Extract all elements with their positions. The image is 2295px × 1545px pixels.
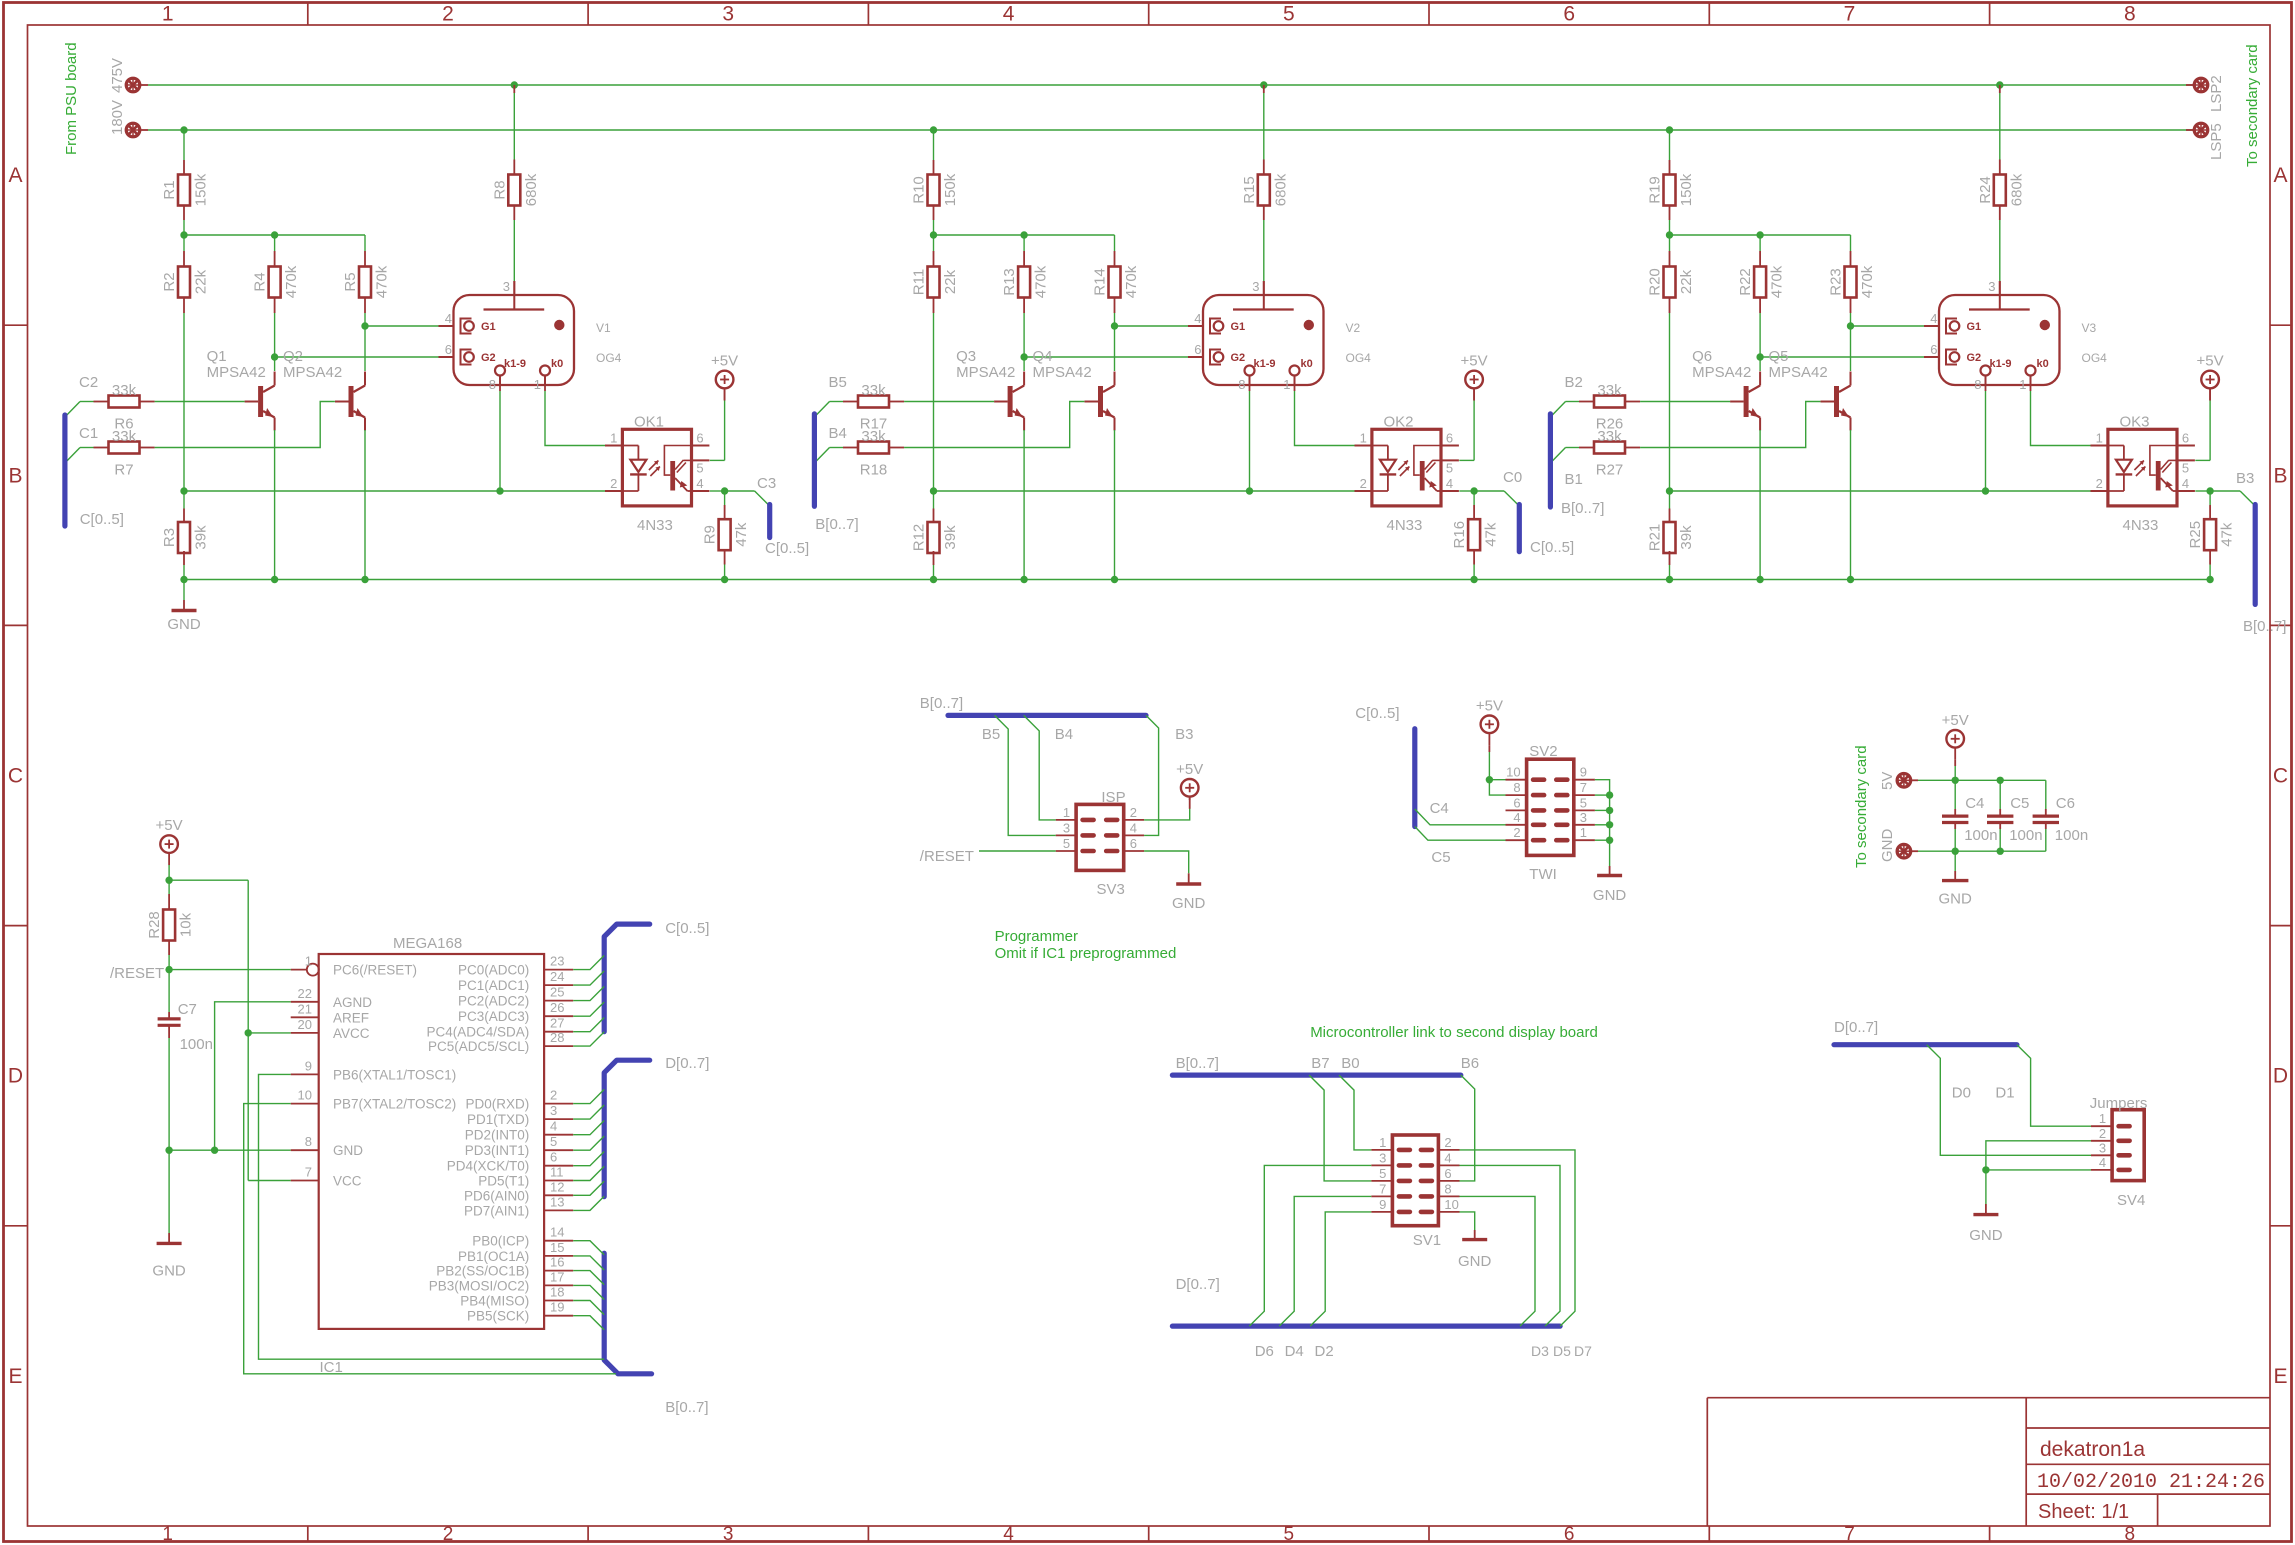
svg-text:k1-9: k1-9 — [1254, 358, 1276, 370]
svg-text:k1-9: k1-9 — [504, 358, 526, 370]
svg-text:33k: 33k — [112, 382, 137, 399]
svg-text:39k: 39k — [1678, 525, 1695, 550]
svg-text:LSP5: LSP5 — [2208, 123, 2225, 160]
svg-text:680k: 680k — [2008, 173, 2025, 206]
svg-text:B2: B2 — [1565, 374, 1583, 391]
svg-text:R14: R14 — [1092, 268, 1109, 296]
svg-text:4: 4 — [1130, 820, 1137, 835]
svg-text:V1: V1 — [596, 321, 611, 335]
svg-text:GND: GND — [1879, 829, 1896, 863]
svg-text:5: 5 — [1063, 836, 1070, 851]
svg-text:100n: 100n — [1964, 827, 1997, 844]
svg-text:PC3(ADC3): PC3(ADC3) — [458, 1009, 529, 1024]
svg-text:MEGA168: MEGA168 — [393, 935, 462, 952]
svg-text:10: 10 — [1506, 765, 1520, 780]
svg-text:7: 7 — [1844, 1524, 1855, 1545]
svg-text:1: 1 — [162, 1524, 173, 1545]
svg-text:1: 1 — [1283, 377, 1290, 392]
svg-text:B[0..7]: B[0..7] — [815, 516, 858, 533]
svg-text:8: 8 — [2125, 1524, 2136, 1545]
svg-text:470k: 470k — [1859, 265, 1876, 298]
svg-text:D4: D4 — [1285, 1343, 1304, 1360]
svg-text:V2: V2 — [1346, 321, 1361, 335]
svg-text:R9: R9 — [702, 525, 719, 544]
svg-text:G2: G2 — [481, 352, 496, 364]
svg-text:PD6(AIN0): PD6(AIN0) — [464, 1188, 529, 1203]
svg-text:C[0..5]: C[0..5] — [1355, 705, 1399, 722]
svg-text:B7: B7 — [1311, 1055, 1329, 1072]
svg-text:22: 22 — [298, 986, 312, 1001]
svg-text:470k: 470k — [1033, 265, 1050, 298]
svg-text:470k: 470k — [283, 265, 300, 298]
svg-text:R4: R4 — [252, 272, 269, 291]
svg-text:24: 24 — [550, 969, 564, 984]
svg-text:AREF: AREF — [333, 1010, 369, 1025]
svg-text:B6: B6 — [1461, 1055, 1479, 1072]
svg-text:6: 6 — [1930, 342, 1937, 357]
svg-text:R1: R1 — [161, 180, 178, 199]
svg-text:11: 11 — [550, 1165, 564, 1180]
svg-text:6: 6 — [1444, 1166, 1451, 1181]
svg-text:1: 1 — [305, 954, 312, 969]
svg-text:SV2: SV2 — [1529, 743, 1557, 760]
svg-text:MPSA42: MPSA42 — [283, 364, 342, 381]
svg-text:R12: R12 — [911, 524, 928, 552]
svg-text:GND: GND — [1939, 891, 1973, 908]
svg-text:3: 3 — [1252, 279, 1259, 294]
svg-text:R3: R3 — [161, 528, 178, 547]
svg-text:8: 8 — [2124, 3, 2136, 26]
svg-text:4: 4 — [1194, 311, 1201, 326]
svg-text:2: 2 — [443, 1524, 454, 1545]
svg-text:470k: 470k — [374, 265, 391, 298]
svg-text:13: 13 — [550, 1194, 564, 1209]
svg-text:PD7(AIN1): PD7(AIN1) — [464, 1203, 529, 1218]
svg-text:OG4: OG4 — [1346, 351, 1372, 365]
svg-text:PD0(RXD): PD0(RXD) — [466, 1097, 530, 1112]
svg-text:B[0..7]: B[0..7] — [1176, 1055, 1219, 1072]
svg-text:PB7(XTAL2/TOSC2): PB7(XTAL2/TOSC2) — [333, 1097, 456, 1112]
svg-text:B3: B3 — [2236, 470, 2254, 487]
svg-text:Q1: Q1 — [207, 348, 227, 365]
svg-text:47k: 47k — [1483, 522, 1500, 547]
svg-text:680k: 680k — [1272, 173, 1289, 206]
svg-text:AGND: AGND — [333, 995, 372, 1010]
svg-text:+5V: +5V — [711, 353, 738, 370]
svg-text:B4: B4 — [829, 425, 847, 442]
svg-text:D[0..7]: D[0..7] — [665, 1055, 709, 1072]
svg-text:4N33: 4N33 — [637, 517, 673, 534]
svg-text:6: 6 — [2182, 431, 2189, 446]
svg-text:E: E — [8, 1365, 22, 1388]
svg-text:GND: GND — [1969, 1227, 2003, 1244]
svg-text:Q5: Q5 — [1769, 348, 1789, 365]
svg-text:4: 4 — [1513, 810, 1520, 825]
svg-text:4: 4 — [696, 476, 703, 491]
svg-text:3: 3 — [723, 1524, 734, 1545]
svg-text:3: 3 — [722, 3, 734, 26]
svg-text:4: 4 — [1003, 1524, 1014, 1545]
svg-text:PD1(TXD): PD1(TXD) — [467, 1112, 529, 1127]
svg-text:D7: D7 — [1574, 1343, 1592, 1359]
svg-text:2: 2 — [1513, 825, 1520, 840]
svg-text:A: A — [2273, 164, 2287, 187]
svg-text:PB2(SS/OC1B): PB2(SS/OC1B) — [436, 1264, 529, 1279]
svg-text:GND: GND — [333, 1143, 363, 1158]
svg-text:TWI: TWI — [1529, 866, 1557, 883]
svg-text:6: 6 — [1563, 3, 1575, 26]
svg-text:k0: k0 — [1301, 358, 1313, 370]
svg-text:4: 4 — [1003, 3, 1015, 26]
svg-text:LSP2: LSP2 — [2208, 75, 2225, 112]
svg-text:From PSU board: From PSU board — [63, 42, 80, 155]
svg-text:33k: 33k — [112, 428, 137, 445]
svg-text:3: 3 — [1988, 279, 1995, 294]
svg-text:D6: D6 — [1255, 1343, 1274, 1360]
svg-text:150k: 150k — [193, 173, 210, 206]
svg-text:19: 19 — [550, 1300, 564, 1315]
svg-text:C[0..5]: C[0..5] — [1530, 539, 1574, 556]
svg-text:+5V: +5V — [1942, 712, 1969, 729]
svg-text:7: 7 — [1379, 1181, 1386, 1196]
svg-text:5: 5 — [1446, 460, 1453, 475]
svg-text:47k: 47k — [2219, 522, 2236, 547]
svg-text:D[0..7]: D[0..7] — [1176, 1276, 1220, 1293]
svg-text:C4: C4 — [1430, 800, 1449, 817]
svg-text:R24: R24 — [1977, 176, 1994, 204]
svg-text:C: C — [8, 765, 23, 788]
svg-text:6: 6 — [1513, 795, 1520, 810]
svg-text:2: 2 — [2099, 1126, 2106, 1141]
svg-text:33k: 33k — [1597, 382, 1622, 399]
svg-text:C2: C2 — [79, 374, 98, 391]
svg-text:33k: 33k — [1597, 428, 1622, 445]
svg-text:Q3: Q3 — [956, 348, 976, 365]
svg-text:5: 5 — [550, 1134, 557, 1149]
svg-text:G1: G1 — [1231, 321, 1246, 333]
svg-text:5: 5 — [1379, 1166, 1386, 1181]
svg-text:PC1(ADC1): PC1(ADC1) — [458, 978, 529, 993]
svg-text:B[0..7]: B[0..7] — [2243, 618, 2286, 635]
svg-text:1: 1 — [2099, 1111, 2106, 1126]
svg-text:R7: R7 — [114, 462, 133, 479]
svg-text:Microcontroller link to second: Microcontroller link to second display b… — [1310, 1024, 1598, 1041]
svg-text:dekatron1a: dekatron1a — [2040, 1438, 2145, 1461]
svg-text:+5V: +5V — [156, 817, 183, 834]
svg-text:10k: 10k — [178, 912, 195, 937]
svg-text:8: 8 — [1513, 780, 1520, 795]
svg-text:Q6: Q6 — [1692, 348, 1712, 365]
svg-text:B5: B5 — [982, 726, 1000, 743]
svg-text:AVCC: AVCC — [333, 1026, 370, 1041]
svg-text:1: 1 — [610, 431, 617, 446]
svg-text:1: 1 — [2019, 377, 2026, 392]
svg-text:PB0(ICP): PB0(ICP) — [472, 1234, 529, 1249]
svg-text:MPSA42: MPSA42 — [1769, 364, 1828, 381]
svg-text:B: B — [8, 464, 22, 487]
svg-text:MPSA42: MPSA42 — [207, 364, 266, 381]
svg-text:100n: 100n — [2009, 827, 2042, 844]
svg-text:7: 7 — [305, 1165, 312, 1180]
svg-text:R10: R10 — [911, 176, 928, 204]
svg-text:2: 2 — [1444, 1135, 1451, 1150]
svg-text:9: 9 — [1580, 765, 1587, 780]
svg-text:B1: B1 — [1565, 471, 1583, 488]
svg-text:5: 5 — [1283, 3, 1295, 26]
svg-text:R11: R11 — [911, 269, 928, 295]
svg-text:2: 2 — [1360, 476, 1367, 491]
svg-text:PC5(ADC5/SCL): PC5(ADC5/SCL) — [428, 1039, 529, 1054]
svg-text:GND: GND — [1172, 895, 1206, 912]
svg-text:10/02/2010 21:24:26: 10/02/2010 21:24:26 — [2037, 1471, 2265, 1494]
svg-text:C5: C5 — [2010, 795, 2029, 812]
svg-text:G2: G2 — [1231, 352, 1246, 364]
svg-text:R28: R28 — [146, 911, 163, 939]
svg-text:D2: D2 — [1315, 1343, 1334, 1360]
svg-text:SV4: SV4 — [2117, 1192, 2145, 1209]
svg-text:OK2: OK2 — [1384, 414, 1414, 431]
svg-text:B5: B5 — [829, 374, 847, 391]
svg-text:G1: G1 — [481, 321, 496, 333]
svg-text:8: 8 — [489, 377, 496, 392]
svg-text:8: 8 — [305, 1134, 312, 1149]
svg-text:D[0..7]: D[0..7] — [1834, 1019, 1878, 1036]
svg-text:12: 12 — [550, 1179, 564, 1194]
svg-text:28: 28 — [550, 1030, 564, 1045]
svg-text:Sheet: 1/1: Sheet: 1/1 — [2038, 1501, 2129, 1523]
svg-text:22k: 22k — [942, 269, 959, 294]
svg-text:PB1(OC1A): PB1(OC1A) — [458, 1249, 529, 1264]
svg-text:C5: C5 — [1431, 849, 1450, 866]
svg-text:4: 4 — [1930, 311, 1937, 326]
svg-text:100n: 100n — [180, 1036, 213, 1053]
svg-text:39k: 39k — [193, 525, 210, 550]
svg-text:/RESET: /RESET — [110, 965, 164, 982]
svg-text:B: B — [2273, 464, 2287, 487]
svg-text:VCC: VCC — [333, 1174, 362, 1189]
svg-text:39k: 39k — [942, 525, 959, 550]
svg-text:3: 3 — [503, 279, 510, 294]
svg-text:R23: R23 — [1828, 268, 1845, 296]
svg-text:100n: 100n — [2055, 827, 2088, 844]
svg-text:4: 4 — [1446, 476, 1453, 491]
svg-text:1: 1 — [1063, 805, 1070, 820]
svg-text:B4: B4 — [1055, 726, 1073, 743]
svg-text:150k: 150k — [1678, 173, 1695, 206]
svg-text:33k: 33k — [861, 382, 886, 399]
svg-text:180V: 180V — [109, 100, 126, 135]
svg-text:3: 3 — [1379, 1150, 1386, 1165]
svg-text:Q4: Q4 — [1033, 348, 1053, 365]
svg-text:+5V: +5V — [1176, 761, 1203, 778]
svg-text:PD5(T1): PD5(T1) — [478, 1174, 529, 1189]
svg-text:R22: R22 — [1737, 268, 1754, 296]
svg-text:C7: C7 — [178, 1001, 197, 1018]
svg-text:6: 6 — [1194, 342, 1201, 357]
svg-text:3: 3 — [1580, 810, 1587, 825]
svg-text:C: C — [2273, 765, 2288, 788]
svg-text:9: 9 — [305, 1058, 312, 1073]
svg-text:470k: 470k — [1123, 265, 1140, 298]
svg-text:B[0..7]: B[0..7] — [665, 1399, 708, 1416]
svg-text:26: 26 — [550, 1000, 564, 1015]
svg-text:B[0..7]: B[0..7] — [920, 695, 963, 712]
svg-text:3: 3 — [1063, 820, 1070, 835]
svg-text:SV3: SV3 — [1097, 881, 1125, 898]
svg-text:23: 23 — [550, 954, 564, 969]
svg-text:PC2(ADC2): PC2(ADC2) — [458, 994, 529, 1009]
svg-text:C6: C6 — [2056, 795, 2075, 812]
svg-text:20: 20 — [298, 1017, 312, 1032]
svg-text:27: 27 — [550, 1016, 564, 1031]
svg-text:4: 4 — [1444, 1150, 1451, 1165]
svg-text:Jumpers: Jumpers — [2090, 1095, 2148, 1112]
svg-text:+5V: +5V — [2197, 353, 2224, 370]
svg-text:/RESET: /RESET — [920, 848, 974, 865]
svg-text:To secondary card: To secondary card — [2244, 44, 2261, 167]
svg-text:47k: 47k — [733, 522, 750, 547]
svg-text:C[0..5]: C[0..5] — [665, 920, 709, 937]
svg-text:Programmer: Programmer — [995, 928, 1078, 945]
svg-text:R20: R20 — [1647, 268, 1664, 296]
svg-text:k1-9: k1-9 — [1990, 358, 2012, 370]
svg-text:2: 2 — [1130, 805, 1137, 820]
svg-text:C1: C1 — [79, 425, 98, 442]
svg-text:9: 9 — [1379, 1197, 1386, 1212]
svg-text:R25: R25 — [2187, 521, 2204, 549]
svg-text:1: 1 — [1379, 1135, 1386, 1150]
svg-text:PB6(XTAL1/TOSC1): PB6(XTAL1/TOSC1) — [333, 1067, 456, 1082]
svg-text:R8: R8 — [491, 180, 508, 199]
svg-text:4: 4 — [445, 311, 452, 326]
svg-text:R27: R27 — [1596, 462, 1624, 479]
svg-text:2: 2 — [442, 3, 454, 26]
svg-text:B3: B3 — [1175, 726, 1193, 743]
svg-text:10: 10 — [1444, 1197, 1458, 1212]
svg-text:PC6(/RESET): PC6(/RESET) — [333, 963, 417, 978]
svg-text:C[0..5]: C[0..5] — [765, 540, 809, 557]
svg-text:C0: C0 — [1503, 469, 1522, 486]
svg-text:33k: 33k — [861, 428, 886, 445]
svg-text:R18: R18 — [860, 462, 888, 479]
svg-text:6: 6 — [1130, 836, 1137, 851]
svg-text:1: 1 — [2096, 431, 2103, 446]
svg-text:B[0..7]: B[0..7] — [1561, 500, 1604, 517]
svg-text:6: 6 — [1564, 1524, 1575, 1545]
svg-text:G2: G2 — [1967, 352, 1982, 364]
svg-text:PB4(MISO): PB4(MISO) — [460, 1294, 529, 1309]
svg-text:5: 5 — [2182, 460, 2189, 475]
svg-text:R15: R15 — [1241, 176, 1258, 204]
svg-text:6: 6 — [445, 342, 452, 357]
svg-text:C[0..5]: C[0..5] — [80, 511, 124, 528]
svg-text:D: D — [8, 1065, 23, 1088]
svg-text:1: 1 — [162, 3, 174, 26]
svg-text:150k: 150k — [942, 173, 959, 206]
svg-text:PB5(SCK): PB5(SCK) — [467, 1309, 529, 1324]
svg-text:8: 8 — [1238, 377, 1245, 392]
svg-text:6: 6 — [550, 1150, 557, 1165]
svg-text:3: 3 — [2099, 1140, 2106, 1155]
svg-text:SV1: SV1 — [1413, 1232, 1441, 1249]
svg-text:PD3(INT1): PD3(INT1) — [465, 1143, 530, 1158]
svg-text:6: 6 — [696, 431, 703, 446]
svg-text:R2: R2 — [161, 272, 178, 291]
svg-text:E: E — [2273, 1365, 2287, 1388]
svg-text:R21: R21 — [1647, 524, 1664, 552]
svg-text:8: 8 — [1444, 1181, 1451, 1196]
svg-text:GND: GND — [167, 616, 201, 633]
svg-text:+5V: +5V — [1476, 697, 1503, 714]
svg-text:4: 4 — [2182, 476, 2189, 491]
svg-text:7: 7 — [1580, 780, 1587, 795]
svg-text:PD2(INT0): PD2(INT0) — [465, 1128, 530, 1143]
svg-text:2: 2 — [550, 1088, 557, 1103]
svg-text:R16: R16 — [1451, 521, 1468, 549]
svg-text:R13: R13 — [1001, 268, 1018, 296]
svg-text:OG4: OG4 — [2082, 351, 2108, 365]
svg-text:GND: GND — [1593, 887, 1627, 904]
svg-text:GND: GND — [1458, 1253, 1492, 1270]
svg-text:A: A — [8, 164, 22, 187]
svg-text:PB3(MOSI/OC2): PB3(MOSI/OC2) — [429, 1278, 530, 1293]
svg-text:OG4: OG4 — [596, 351, 622, 365]
svg-text:R5: R5 — [342, 272, 359, 291]
svg-text:k0: k0 — [551, 358, 563, 370]
svg-text:D1: D1 — [1995, 1085, 2014, 1102]
svg-text:V3: V3 — [2082, 321, 2097, 335]
svg-text:16: 16 — [550, 1255, 564, 1270]
svg-text:14: 14 — [550, 1225, 564, 1240]
svg-text:D3: D3 — [1531, 1343, 1549, 1359]
svg-text:D0: D0 — [1952, 1085, 1971, 1102]
svg-text:Q2: Q2 — [283, 348, 303, 365]
svg-text:25: 25 — [550, 985, 564, 1000]
svg-text:MPSA42: MPSA42 — [956, 364, 1015, 381]
svg-text:G1: G1 — [1967, 321, 1982, 333]
svg-text:2: 2 — [610, 476, 617, 491]
svg-text:k0: k0 — [2037, 358, 2049, 370]
svg-text:470k: 470k — [1769, 265, 1786, 298]
svg-text:D: D — [2273, 1065, 2288, 1088]
svg-text:To secondary card: To secondary card — [1853, 745, 1870, 868]
svg-text:10: 10 — [298, 1088, 312, 1103]
svg-text:PD4(XCK/T0): PD4(XCK/T0) — [447, 1159, 530, 1174]
svg-text:OK1: OK1 — [634, 414, 664, 431]
svg-text:3: 3 — [550, 1103, 557, 1118]
svg-text:C3: C3 — [757, 475, 776, 492]
svg-text:GND: GND — [152, 1263, 186, 1280]
svg-text:1: 1 — [1360, 431, 1367, 446]
svg-text:2: 2 — [2096, 476, 2103, 491]
svg-text:OK3: OK3 — [2120, 414, 2150, 431]
svg-text:D5: D5 — [1553, 1343, 1571, 1359]
svg-text:ISP: ISP — [1101, 789, 1125, 806]
svg-text:1: 1 — [534, 377, 541, 392]
svg-text:7: 7 — [1844, 3, 1856, 26]
svg-text:Omit if IC1 preprogrammed: Omit if IC1 preprogrammed — [995, 945, 1177, 962]
svg-text:22k: 22k — [193, 269, 210, 294]
svg-text:4: 4 — [2099, 1155, 2106, 1170]
svg-text:18: 18 — [550, 1285, 564, 1300]
svg-text:5: 5 — [696, 460, 703, 475]
svg-text:4: 4 — [550, 1119, 557, 1134]
svg-text:22k: 22k — [1678, 269, 1695, 294]
svg-text:4N33: 4N33 — [2123, 517, 2159, 534]
svg-text:1: 1 — [1580, 825, 1587, 840]
svg-text:4N33: 4N33 — [1387, 517, 1423, 534]
svg-text:B0: B0 — [1341, 1055, 1359, 1072]
